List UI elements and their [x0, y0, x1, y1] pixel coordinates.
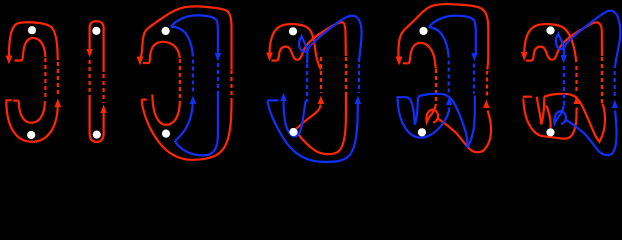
marked point top F5 [419, 27, 427, 35]
marked point top F1 [28, 26, 36, 34]
marked point top F6 [546, 26, 554, 34]
tick outer U F3 [141, 98, 147, 100]
inner bottom U F3 red [152, 95, 179, 125]
oval left solid lower F2 [88, 95, 90, 134]
marked point bottom F2 [93, 131, 101, 139]
red dome and V2 and right rise F6 [544, 94, 605, 142]
blue SE arm and bottom U F6 [565, 111, 616, 156]
arrow up blue inner F5 [446, 97, 452, 106]
oval left dashed F2 [88, 60, 90, 96]
outer bottom U F3 red [142, 99, 232, 160]
arrow up red right F5 [483, 100, 489, 109]
dashed blue inner vertical F3 [192, 57, 194, 92]
dashed blue inner vertical F6 [563, 66, 565, 105]
red alpha loop bottom F5 [426, 104, 438, 123]
blue V1 and tick F5 [396, 97, 418, 125]
dashed blue outer vertical F3 [217, 63, 219, 91]
arrow up blue inner F3 [190, 96, 196, 105]
marked point top F2 [92, 27, 100, 35]
arrow down top-left F4 [266, 53, 273, 62]
oval right solid lower F2 [102, 110, 104, 134]
arrow up red inner F6 [574, 96, 580, 105]
tick blue outer U F4 [268, 99, 279, 101]
blue inner top curve to cusp F5 [429, 27, 449, 58]
outer top arc F3 red [140, 6, 231, 69]
dashed blue outer vertical F5 [473, 64, 475, 94]
dashed blue inner vertical F5 [448, 58, 450, 93]
oval right solid upper F2 [102, 27, 104, 72]
red strand to bottom dot F4 [297, 105, 321, 129]
red bottom U F4 [297, 93, 346, 154]
arrow up red inner F4 [318, 96, 324, 105]
arrow down left F2 [86, 49, 92, 58]
outer top arc F4 red [270, 24, 321, 69]
blue inner top curve to cusp F3 [171, 27, 193, 57]
marked point top F3 [162, 27, 170, 35]
oval right dashed F2 [102, 74, 104, 103]
dashed blue inner vertical F4 [306, 64, 308, 102]
blue dome and V2 and right rise F5 [418, 94, 475, 148]
dashed outer vertical F3 red [230, 70, 232, 99]
red U1 under dot rising to arrow F6 [523, 99, 576, 139]
blue upper branch from cusp F5 [429, 16, 476, 53]
inner arch with hook F1 [15, 38, 46, 61]
outer bottom U F1 [6, 101, 58, 142]
outer top arc F5 red [398, 4, 488, 69]
tick inner U F1 [13, 99, 19, 101]
marked point bottom F4 [289, 128, 297, 136]
dashed outer vertical F1 [57, 62, 59, 97]
tick outer U F1 [6, 99, 12, 101]
arrow down top-left F3 [137, 57, 144, 66]
blue outer bottom U F4 [268, 100, 358, 161]
arrow up blue left F4 [280, 93, 286, 102]
dashed inner vertical F3 red [179, 59, 181, 101]
arrow up blue right F4 [355, 96, 361, 105]
marked point top F4 [289, 27, 297, 35]
arrow down top-left F6 [521, 52, 528, 61]
marked point bottom F5 [418, 128, 426, 136]
dashed red inner vertical F6 [575, 66, 577, 94]
inner arch with hook F5 [403, 43, 436, 69]
arrow down blue right F5 [471, 53, 477, 62]
tick red U1 F6 [523, 96, 532, 98]
curve a outer top arc [9, 22, 58, 60]
inner bottom U F1 [19, 101, 45, 123]
blue alpha loop top F4 [299, 16, 362, 64]
oval left solid upper F2 [88, 27, 90, 50]
dashed red inner vertical F4 [320, 57, 322, 93]
arrow down top-left F1 [6, 56, 13, 65]
arrow down blue inner F6 [561, 55, 567, 64]
blue inner V around bottom dot F4 [284, 101, 306, 137]
red SE arm and bottom U F5 [437, 111, 491, 153]
blue U1 under dot rising to arrow F5 [398, 99, 450, 138]
marked point bottom F6 [546, 128, 554, 136]
dashed red inner vertical F5 [435, 69, 437, 104]
inner arch with hook F3 [143, 42, 180, 63]
inner arch valley and fin diagonal F6 red [526, 22, 602, 60]
dashed red outer vertical F6 [601, 57, 603, 104]
inner arch valley and fin diagonal F4 red [271, 22, 345, 60]
dashed blue outer vertical F6 [614, 66, 616, 96]
dashed inner vertical F1 [44, 58, 46, 100]
oval bottom cap F2 [90, 133, 104, 142]
blue alpha loop bottom F6 [554, 106, 566, 125]
blue right lower and bottom sweep F3 [175, 91, 218, 155]
arrow up blue right F6 [612, 100, 618, 109]
oval top cap F2 [90, 21, 104, 28]
dashed red outer vertical F5 [486, 71, 488, 96]
arrow down blue right F3 [215, 53, 221, 62]
arrow up right F2 [100, 105, 106, 114]
dashed blue outer vertical F4 [358, 64, 360, 93]
dashed red outer vertical F4 [345, 57, 347, 93]
blue upper branch from cusp F3 [171, 15, 218, 53]
red strand arrow to dome area F6 [546, 105, 550, 128]
marked point bottom F3 [162, 130, 170, 138]
outer top arc F6 red [524, 24, 576, 62]
arrow down top-left F5 [396, 57, 403, 66]
marked point bottom F1 [27, 131, 35, 139]
red V1 F6 [537, 97, 544, 125]
arrow up bottom-right F1 [55, 99, 62, 108]
blue alpha loop top F6 [556, 11, 621, 66]
blue inner rising branch F3 [175, 100, 193, 141]
